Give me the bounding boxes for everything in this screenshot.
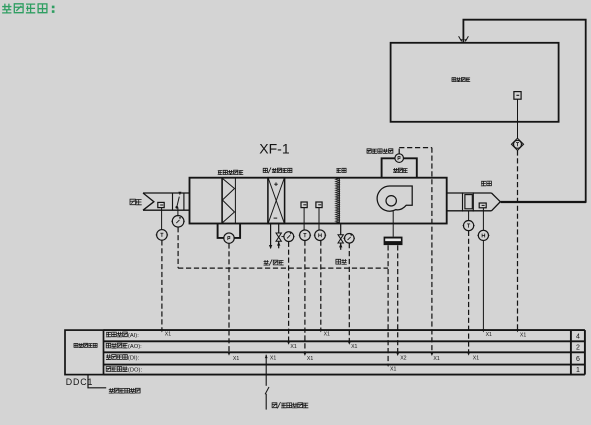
svg-text:DDC1: DDC1: [66, 377, 94, 387]
fan dP taps: [382, 158, 417, 177]
pipe coil supply: [269, 224, 272, 250]
arrow room sensor AI: [516, 329, 519, 332]
arrow T2 AI: [319, 329, 322, 332]
label 蒸汽: [336, 259, 347, 264]
label 冬/夏工况转换: [272, 402, 308, 408]
supply duct taper: [492, 193, 501, 211]
supply sensor square: [479, 203, 486, 208]
controller box: [65, 330, 104, 375]
dashed wire T2 to AI: [320, 241, 322, 330]
row label (AI):: [106, 332, 139, 339]
wire T2 down: [318, 208, 320, 230]
title text 应用实例：: [2, 4, 54, 13]
coil box 冷/热交换器: [268, 178, 285, 224]
wire F1 down: [303, 208, 305, 230]
supply frame: [463, 192, 474, 211]
table row line 5: [104, 374, 585, 376]
label X1 room AI: [520, 332, 526, 338]
pipe steam: [340, 224, 342, 235]
dashed wire V1 to AO: [288, 242, 290, 342]
fan hub: [386, 196, 396, 206]
label 冷/热交换器: [263, 167, 292, 173]
dashed wire damper actuator down: [177, 227, 179, 268]
wire winter-summer upper: [265, 355, 267, 386]
wire damper to actuator: [177, 208, 179, 217]
svg-text:X1: X1: [270, 356, 276, 362]
label X1 filter: [233, 356, 239, 362]
label X1 DO: [390, 366, 396, 372]
svg-text:X1: X1: [351, 344, 357, 350]
row label (DO):: [106, 366, 142, 373]
humidifier wall: [338, 178, 340, 224]
filter dP taps: [218, 224, 241, 238]
label XF-1: [259, 141, 290, 157]
dashed wire filter dP to DI: [228, 243, 230, 351]
AHU casing: [190, 178, 447, 224]
count 1: [576, 367, 580, 374]
filter left wall: [221, 178, 223, 224]
label X1 winter-summer: [270, 356, 276, 362]
arrow fan status DI: [396, 353, 399, 356]
damper actuator M1: [171, 216, 184, 228]
switch slash: [265, 387, 269, 394]
label 现场控制器: [74, 343, 97, 347]
svg-text:1: 1: [576, 367, 580, 374]
svg-text:XF-1: XF-1: [259, 141, 290, 157]
table row line 4: [104, 364, 585, 366]
dashed wire starter DO: [387, 245, 389, 363]
svg-text:4: 4: [576, 333, 580, 340]
row label (AO):: [106, 343, 142, 350]
arrow S2 AI: [482, 329, 485, 332]
svg-text:X1: X1: [290, 344, 296, 350]
dashed wire F1 to DI: [304, 241, 306, 352]
svg-text:X1: X1: [486, 332, 492, 338]
table row line 1: [104, 329, 585, 331]
humidifier zigzag: [336, 178, 340, 223]
wire supply main thick: [501, 201, 586, 203]
wire zone sensor to room sensor: [517, 99, 519, 139]
arrow fan dP DI: [431, 353, 434, 356]
duct sensor square F1: [301, 202, 307, 208]
fan scroll: [377, 186, 412, 211]
svg-text:X1: X1: [473, 356, 479, 362]
count 2: [576, 344, 580, 351]
valve actuator M2: [283, 232, 295, 242]
svg-text:(DO):: (DO):: [128, 367, 143, 373]
label DDC1: [66, 377, 94, 387]
label X1 V1: [290, 344, 296, 350]
sensor circle T1: [156, 230, 168, 241]
valve V2 bowtie: [338, 235, 343, 250]
svg-text:(AO):: (AO):: [128, 344, 142, 350]
sensor circle S1: [463, 221, 475, 231]
pipe coil return: [278, 224, 280, 233]
label X1 fan dP: [433, 356, 439, 362]
arrow F1 DI: [304, 353, 307, 356]
arrow starter DO: [387, 364, 390, 367]
wire DDC to network: [88, 375, 106, 388]
arrow S1 DI: [467, 352, 470, 355]
wire supply-air loop to zone: [463, 20, 585, 202]
label X1 F1: [307, 356, 313, 362]
table row line 2: [104, 340, 585, 342]
duct sensor square T2: [316, 202, 322, 208]
valve actuator M3: [344, 234, 355, 244]
label 送风机压差: [367, 149, 393, 154]
svg-text:X1: X1: [390, 366, 396, 372]
filter zigzag: [222, 178, 234, 222]
wire S2 to AI: [482, 241, 484, 330]
damper frame: [173, 193, 184, 210]
label X1 T2: [324, 332, 330, 338]
valve V1 bowtie: [276, 233, 281, 248]
label 送风: [481, 181, 492, 186]
sensor circle S2: [477, 230, 489, 240]
room sensor circle: [513, 140, 523, 148]
svg-text:X1: X1: [307, 356, 313, 362]
damper blade: [175, 192, 181, 209]
label 被控区域: [452, 77, 470, 81]
label 至中央管理机: [109, 388, 140, 393]
dashed wire T1 to AI: [161, 240, 163, 329]
fresh air duct walls: [143, 193, 190, 210]
dashed wire fan dP route: [399, 148, 432, 353]
fan dP sensor: [394, 154, 404, 163]
wire supply frame down: [468, 211, 470, 221]
wire square T1 to sensor: [161, 208, 163, 230]
label X1 S1: [473, 356, 479, 362]
dashed wire room sensor to AI: [517, 150, 519, 329]
svg-text:(AI):: (AI):: [128, 333, 139, 339]
arrow filter dP DI: [228, 352, 231, 355]
label X2 fan status: [400, 355, 406, 361]
arrowhead into zone left: [459, 36, 463, 42]
svg-text:X1: X1: [520, 332, 526, 338]
svg-text:X1: X1: [165, 332, 171, 338]
fan starter box: [384, 237, 403, 246]
valve V2 stem: [343, 237, 345, 239]
dashed wire S1 to DI: [468, 231, 470, 352]
arrowhead into zone right: [464, 36, 468, 42]
wire supply square down: [482, 208, 484, 231]
svg-text:X1: X1: [433, 356, 439, 362]
svg-text:(DI):: (DI):: [128, 355, 140, 361]
svg-text:X2: X2: [400, 355, 406, 361]
fresh air chevron: [143, 193, 154, 210]
label X1 V2: [351, 344, 357, 350]
supply frame rect: [465, 195, 472, 209]
coil plus: [274, 182, 278, 186]
table row line 3: [104, 351, 585, 353]
count 6: [576, 356, 580, 363]
label X1 T1: [165, 332, 171, 338]
svg-text:6: 6: [576, 356, 580, 363]
count 4: [576, 333, 580, 340]
label 初效过滤器: [218, 170, 244, 175]
svg-text:X1: X1: [324, 332, 330, 338]
supply duct walls: [447, 193, 492, 211]
controlled zone box 被控区域: [391, 43, 559, 122]
wire winter-summer lower: [265, 394, 267, 410]
dashed wire damper interlock horizontal: [178, 267, 388, 269]
row label (DI):: [106, 354, 140, 361]
table right edge: [584, 330, 586, 375]
arrow winter-summer DI: [265, 355, 268, 358]
svg-text:X1: X1: [233, 356, 239, 362]
wire fan to starter: [392, 211, 394, 236]
room sensor diamond: [511, 138, 523, 150]
arrow T1 AI: [161, 329, 164, 332]
filter dP sensor: [223, 233, 235, 243]
label 新风: [130, 199, 142, 205]
label 送风机: [393, 168, 408, 173]
label 冷/热水: [264, 259, 284, 265]
label X1 S2: [486, 332, 492, 338]
dashed wire V2 to AO: [348, 243, 350, 342]
sensor circle F1: [299, 230, 311, 241]
valve V1 stem: [281, 236, 283, 238]
label 加湿: [336, 168, 346, 172]
filter right wall: [234, 178, 236, 224]
arrow V1 AO: [287, 342, 290, 345]
svg-text:2: 2: [576, 344, 580, 351]
duct sensor square T1: [158, 202, 164, 207]
dashed wire fan status DI: [397, 245, 399, 352]
zone sensor square: [514, 92, 521, 100]
table right inner divider: [570, 330, 572, 375]
arrow V2 AO: [348, 342, 351, 345]
coil minus: [274, 217, 278, 219]
sensor circle T2: [314, 230, 326, 241]
coil diagonals: [268, 178, 284, 223]
